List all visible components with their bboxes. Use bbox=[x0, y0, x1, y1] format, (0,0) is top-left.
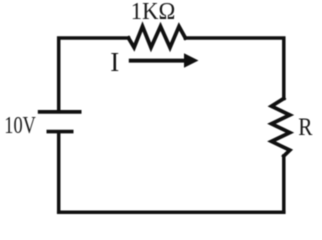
wire right lower bbox=[282, 156, 286, 212]
svg-text:1KΩ: 1KΩ bbox=[131, 0, 176, 25]
wire left lower bbox=[57, 133, 61, 212]
resistor R (vertical zigzag) bbox=[272, 99, 290, 157]
svg-text:R: R bbox=[298, 112, 312, 141]
battery V1 10V: short negative plate bbox=[47, 130, 74, 134]
svg-text:I: I bbox=[110, 47, 119, 77]
battery V1 10V: long positive plate bbox=[38, 110, 82, 114]
resistor R1 1KΩ (horizontal zigzag) bbox=[129, 26, 186, 47]
wire top-left (left wire upper + top wire left segment) bbox=[59, 38, 129, 110]
current arrow I (pointing right) bbox=[129, 53, 199, 67]
wire top-right (top wire right segment + right wire upper) bbox=[185, 38, 283, 99]
svg-text:10V: 10V bbox=[4, 112, 36, 139]
wire bottom bbox=[59, 210, 284, 214]
